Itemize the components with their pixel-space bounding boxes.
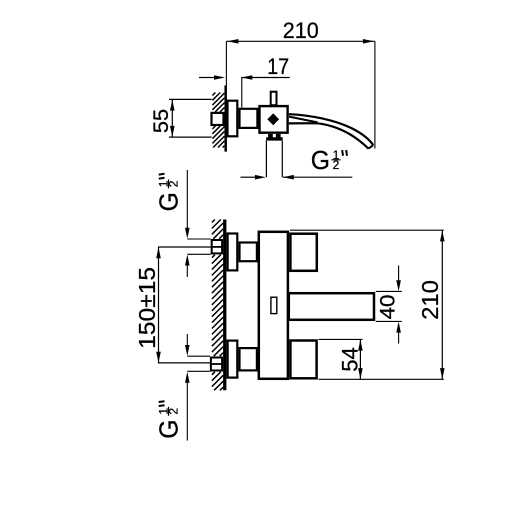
in-wall supply elbow xyxy=(212,113,224,125)
leader from lower-left G1/2 label xyxy=(186,378,188,441)
svg-text:54: 54 xyxy=(337,347,362,372)
leader from upper-left G1/2 label xyxy=(186,170,188,232)
svg-text:55: 55 xyxy=(150,109,173,133)
dim 210 (right): dimension line xyxy=(441,230,443,379)
label G 1/2" (lower left, rotated) xyxy=(156,401,184,439)
svg-text:2: 2 xyxy=(167,408,181,415)
wall flange (top assembly) xyxy=(228,101,238,137)
wall section (top assembly) hatching xyxy=(212,93,224,148)
svg-text:2: 2 xyxy=(333,158,340,172)
diamond mark on valve body xyxy=(267,113,279,125)
wall line (top assembly) xyxy=(224,85,227,151)
dim 54: extension line (top) xyxy=(319,338,363,340)
label G 1/2" (upper left, rotated) xyxy=(156,174,184,212)
down-arrow above bottom nut xyxy=(185,345,190,356)
top inlet pipe xyxy=(240,243,257,262)
svg-text:G: G xyxy=(156,420,184,439)
svg-text:210: 210 xyxy=(283,18,319,43)
stem on top of body xyxy=(271,92,277,106)
svg-text:2: 2 xyxy=(167,180,181,187)
dim 210 (top): dimension line xyxy=(226,40,375,42)
svg-text:G: G xyxy=(156,192,184,211)
dim 210 (top): wall extension line xyxy=(225,41,227,85)
top handle xyxy=(290,234,316,271)
dim 150±15: dimension line xyxy=(158,247,160,363)
spout inner diagonal line xyxy=(289,117,318,123)
wall line (bottom assembly) xyxy=(223,220,226,391)
pipe nipple flange-to-body xyxy=(240,109,258,128)
up-arrow under top nut xyxy=(185,255,190,266)
handle window slot xyxy=(271,297,277,313)
dim 55: dimension line with arrows xyxy=(171,99,173,137)
dim 55: extension lines xyxy=(169,98,212,100)
wall section (bottom assembly) hatching xyxy=(212,220,223,391)
dim 210 (right): extension lines xyxy=(290,229,444,231)
pipe lines below nut xyxy=(265,141,267,178)
dim 17: dimension line xyxy=(241,77,289,79)
bottom inlet pipe xyxy=(240,348,257,370)
valve body (top assembly) xyxy=(260,106,288,133)
dim 40: extension lines xyxy=(376,290,402,292)
top inlet flange xyxy=(228,234,238,271)
svg-text:150±15: 150±15 xyxy=(134,267,160,349)
dim 150±15: extension lines xyxy=(158,246,211,248)
dim 210 (top): spout-tip extension line xyxy=(374,41,376,148)
svg-text:210: 210 xyxy=(417,280,443,320)
dim 54: dimension line xyxy=(359,339,361,379)
bottom handle xyxy=(290,341,316,379)
top inlet nut xyxy=(212,240,222,253)
bottom inlet nut xyxy=(211,358,222,371)
bottom inlet flange xyxy=(228,341,238,378)
dim 17: outside arrow at wall xyxy=(199,77,214,79)
svg-text:17: 17 xyxy=(267,54,289,79)
dim G1/2 (top assembly): left line/arrow xyxy=(241,176,256,178)
main body (bottom assembly) xyxy=(259,232,288,379)
dim 40: outside arrows xyxy=(396,280,401,291)
G1/2 extension lines at top nut xyxy=(187,238,210,240)
svg-text:40: 40 xyxy=(376,295,400,320)
svg-text:G: G xyxy=(311,147,330,175)
G1/2 extension lines at bottom nut xyxy=(187,355,210,357)
spout tip edge xyxy=(368,145,373,148)
dim 17: extension line down to pipe xyxy=(241,78,243,108)
packing nut under body xyxy=(266,134,282,141)
spout (bottom assembly) xyxy=(289,293,374,320)
label G 1/2" (top assembly) xyxy=(311,147,347,175)
dim G1/2 (top assembly): right line/arrow xyxy=(283,176,353,178)
spout top curve xyxy=(289,114,373,145)
spout bottom curve xyxy=(289,123,369,148)
